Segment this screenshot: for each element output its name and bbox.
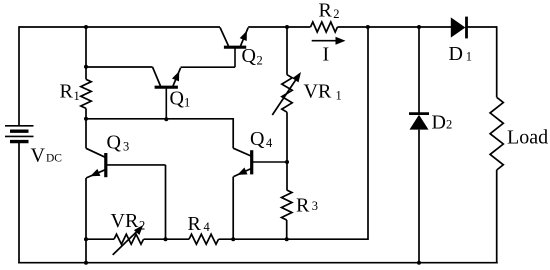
wire: R1 bottom lead to mid rail — [85, 108, 87, 118]
wire: R3 bottom lead — [286, 220, 288, 239]
svg-text:3: 3 — [312, 199, 318, 213]
node: VR2 / R4 / Q3 base — [164, 237, 168, 241]
wire: Load bottom to bottom rail — [496, 170, 498, 264]
node: D2 branch / bottom rail — [417, 261, 421, 265]
wire: right vertical down to Load — [496, 26, 498, 97]
resistor Load — [490, 97, 503, 170]
diode D1 — [451, 17, 467, 39]
resistor R1 — [81, 79, 91, 108]
node: mid rail / Q1 base — [164, 117, 168, 121]
node: top rail / feedback branch — [366, 25, 370, 29]
wire: VR2 right lead to node — [144, 238, 166, 240]
node: R1 top / Q1 collector wire — [84, 65, 88, 69]
wire: Q3 emitter down to VR2 node — [85, 178, 87, 239]
svg-text:Load: Load — [507, 127, 548, 149]
battery V_DC — [5, 126, 34, 142]
wire: Q1 emitter to Q2 base — [181, 66, 235, 68]
wire: top rail to right corner — [467, 26, 498, 28]
transistor Q1 — [153, 67, 181, 119]
wire: top rail right segment (Q2 emitter to R2) — [248, 26, 310, 28]
wire: Q1 collector wire from R1 — [86, 66, 153, 68]
svg-text:1: 1 — [184, 96, 190, 110]
wire: Q3 collector from mid rail — [85, 119, 87, 149]
svg-text:V: V — [31, 145, 46, 167]
svg-text:2: 2 — [257, 54, 263, 68]
wire: R1 top lead — [85, 27, 87, 79]
wire: bottom rail — [18, 262, 498, 264]
resistor R4 — [189, 234, 219, 244]
wire: VR1 bottom lead to Q4 base node — [286, 112, 288, 162]
variable resistor VR1 — [272, 72, 301, 115]
svg-text:Q: Q — [250, 128, 265, 150]
svg-text:VR: VR — [304, 81, 332, 103]
svg-text:R: R — [60, 81, 74, 103]
node: Q4 emitter / R4 / sense rail — [231, 237, 235, 241]
wire: R3 top lead — [286, 162, 288, 190]
svg-text:D: D — [432, 112, 446, 134]
svg-text:DC: DC — [46, 153, 62, 165]
svg-text:R: R — [188, 213, 202, 235]
wire: left vertical from top rail to battery + — [18, 26, 20, 126]
wire: D2 branch upper — [418, 27, 420, 114]
svg-text:2: 2 — [446, 118, 452, 132]
transistor Q4 — [233, 148, 287, 176]
svg-text:Q: Q — [242, 45, 257, 67]
svg-text:2: 2 — [139, 219, 145, 233]
svg-text:R: R — [319, 0, 333, 22]
wire: Q3 base down to sense rail — [165, 165, 167, 239]
node: VR2 left / Q3 emitter — [84, 237, 88, 241]
svg-text:4: 4 — [204, 220, 211, 234]
wire: D2 branch lower — [418, 130, 420, 263]
wire: top rail left segment — [19, 26, 220, 28]
svg-text:VR: VR — [111, 210, 139, 232]
svg-text:I: I — [323, 44, 330, 66]
svg-text:3: 3 — [123, 140, 129, 154]
svg-text:D: D — [449, 43, 463, 65]
transistor Q3 — [86, 148, 166, 178]
wire: Q3 emitter node to bottom rail — [85, 239, 87, 263]
wire: VR1 top lead — [286, 27, 288, 75]
node: top rail / R1 branch — [84, 25, 88, 29]
wire: sense rail from R4 node to feedback corner — [219, 238, 369, 240]
wire: Q4 emitter down to sense rail — [232, 177, 234, 240]
node: VR1 top on top rail — [285, 25, 289, 29]
wire: left vertical from battery - to bottom rail — [18, 142, 20, 264]
svg-text:1: 1 — [336, 89, 342, 103]
svg-text:4: 4 — [266, 136, 273, 150]
node: VR1 / R3 / Q4 base — [285, 160, 289, 164]
svg-text:Q: Q — [170, 88, 185, 110]
wire: mid rail from R1 to Q4 collector — [86, 119, 233, 148]
svg-text:1: 1 — [74, 89, 80, 103]
svg-text:2: 2 — [333, 7, 339, 21]
wire: feedback branch vertical (top rail to sense rail) — [367, 27, 369, 239]
variable resistor VR2 — [113, 225, 144, 255]
node: R3 / sense rail — [285, 237, 289, 241]
svg-text:R: R — [296, 195, 310, 217]
transistor Q2 — [220, 27, 248, 67]
wire: R4 left lead — [166, 238, 190, 240]
resistor R3 — [282, 190, 292, 220]
diode D2 — [409, 114, 429, 130]
wire: VR2 left lead — [86, 238, 114, 240]
current arrow I — [312, 40, 338, 42]
node: top rail / D2 branch — [417, 25, 421, 29]
wire: top rail after R2 to D1 — [338, 26, 452, 28]
svg-text:1: 1 — [466, 50, 472, 64]
resistor R2 — [311, 22, 338, 32]
node: bottom rail / VR2 branch — [84, 261, 88, 265]
svg-text:Q: Q — [107, 132, 122, 154]
node: R1 bottom / mid rail — [84, 117, 88, 121]
